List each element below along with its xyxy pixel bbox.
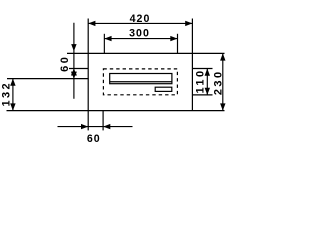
bottom 60 dim left arrow (outside, pointing right) [81,124,88,129]
part top edge (with left stub for 60 dim and right extension for 230 dim) [67,52,225,54]
dimension 300 right extension line [177,34,179,54]
part bottom edge (extended left for 132 dim and right for 230 dim) [7,110,225,112]
110 dim top extension line [192,68,212,70]
dimension 420 line [88,22,192,24]
dimension 300 left extension line [103,34,105,54]
dimension 420 left arrow [88,21,95,26]
part left edge (extended up for 420 dim and down for bottom 60 dim) [87,19,89,131]
dimension 420 right arrow [185,21,192,26]
132 dim vertical line [12,79,14,111]
132 dim up arrow [10,79,15,86]
dimension 300 left arrow [104,36,111,41]
dashed opening rectangle [103,69,177,95]
part right edge (extended up for 420 dim) [191,19,193,111]
svg-text:60: 60 [59,55,71,72]
bottom 60 dim right extension line [102,111,104,131]
110 dim up arrow [205,69,210,76]
110 dim bottom extension line [192,94,212,96]
110 dim down arrow [205,88,210,95]
svg-text:230: 230 [213,70,225,96]
top-left 60 dim up arrow at opening top [71,69,77,76]
svg-text:110: 110 [195,69,207,94]
top-left 60 dim lower extension line [69,68,88,70]
bottom 60 dim line with tails [58,126,133,128]
svg-text:420: 420 [130,13,151,25]
dimension 300 right arrow [170,36,177,41]
132 dim down arrow [10,103,15,110]
dimension 300 line [104,38,177,40]
extra down arrow at slot axis line [71,72,77,79]
svg-text:132: 132 [0,81,12,107]
110 dim vertical line [206,69,208,95]
small rectangle [155,87,172,91]
slot inner bottom line [110,81,172,83]
230 dim vertical line [222,53,224,110]
top-left 60 dim down arrow at part top [71,44,76,51]
bottom 60 dim right arrow (outside, pointing left) [103,124,110,129]
svg-text:300: 300 [129,27,150,39]
top-left 60 dim vertical line [73,23,75,99]
slot outline [110,74,172,84]
230 dim down arrow [220,103,225,110]
svg-text:60: 60 [87,133,101,144]
230 dim up arrow [220,53,225,60]
132 dim top extension line [7,78,89,80]
